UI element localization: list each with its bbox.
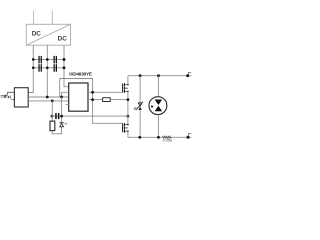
junction dots IC nets [46,91,94,102]
wire Q1 source to Q2 drain rail [127,92,129,125]
IC pin stub left [66,104,69,106]
svg-text:DC: DC [58,35,68,42]
flash lamp V1 [149,76,167,138]
wire LED branch vertical [61,97,63,122]
photodiode D1 [8,92,15,99]
resistor R1 [103,98,111,102]
svg-text:DC: DC [32,31,42,38]
junction dots bottom rail [138,136,189,139]
transistor Q2 [122,123,129,132]
DC/DC converter U1 [26,24,70,45]
LED D2 [59,122,67,127]
gate driver IC U3 [69,83,88,111]
capacitor C4 [54,64,58,72]
wire cap rail 1 [32,58,64,60]
wire Q2 source drop [127,131,129,137]
transistor Q1 [122,83,129,92]
junction dots bypass net [51,115,130,118]
capacitor C1 [38,56,41,64]
junction dots top rail [139,74,190,77]
svg-text:IXD4630YE: IXD4630YE [69,72,92,77]
wire R2 bottom join [52,127,61,134]
optocoupler U2 box [14,88,28,107]
capacitor C3 [38,64,41,72]
opto input arrows [1,95,7,98]
wire input stub top 1 [33,10,35,24]
trigger device D3 [134,102,143,110]
wire loop around IC [60,79,122,124]
wire R2 branch vertical [51,101,53,121]
junction dots FET rail [127,98,130,101]
junction dots cap rails [32,58,66,69]
wire v3 [64,45,69,86]
wire opto out2 to IC [28,100,68,102]
wire Q1 drain riser [127,76,129,85]
wire R1 to FET rail [110,99,128,101]
wire bottom return rail [128,136,191,138]
capacitor C2 [54,56,58,64]
wire IC right pin2 [88,99,103,101]
capacitor C5 [55,113,59,119]
wire IC right pin1 to Q1 gate [88,91,122,93]
wire trigger rail upper [139,76,141,103]
resistor R2 [50,121,55,131]
wire v2 [46,45,48,97]
svg-text:0.05Ω: 0.05Ω [163,139,173,143]
terminal top right [188,72,191,75]
resistor R3 shunt zigzag [162,136,171,138]
wire v1 [28,45,33,92]
terminal bottom right [188,134,191,138]
wire input stub top 2 [51,10,53,24]
wire bypass net y116 [52,115,128,117]
wire cap rail 2 [32,67,64,69]
wire trigger rail lower [139,110,141,137]
wire riser VDD to IC pin2 [62,92,69,97]
wire VDD net opto to IC [28,96,68,98]
wire top HV rail [128,75,191,77]
